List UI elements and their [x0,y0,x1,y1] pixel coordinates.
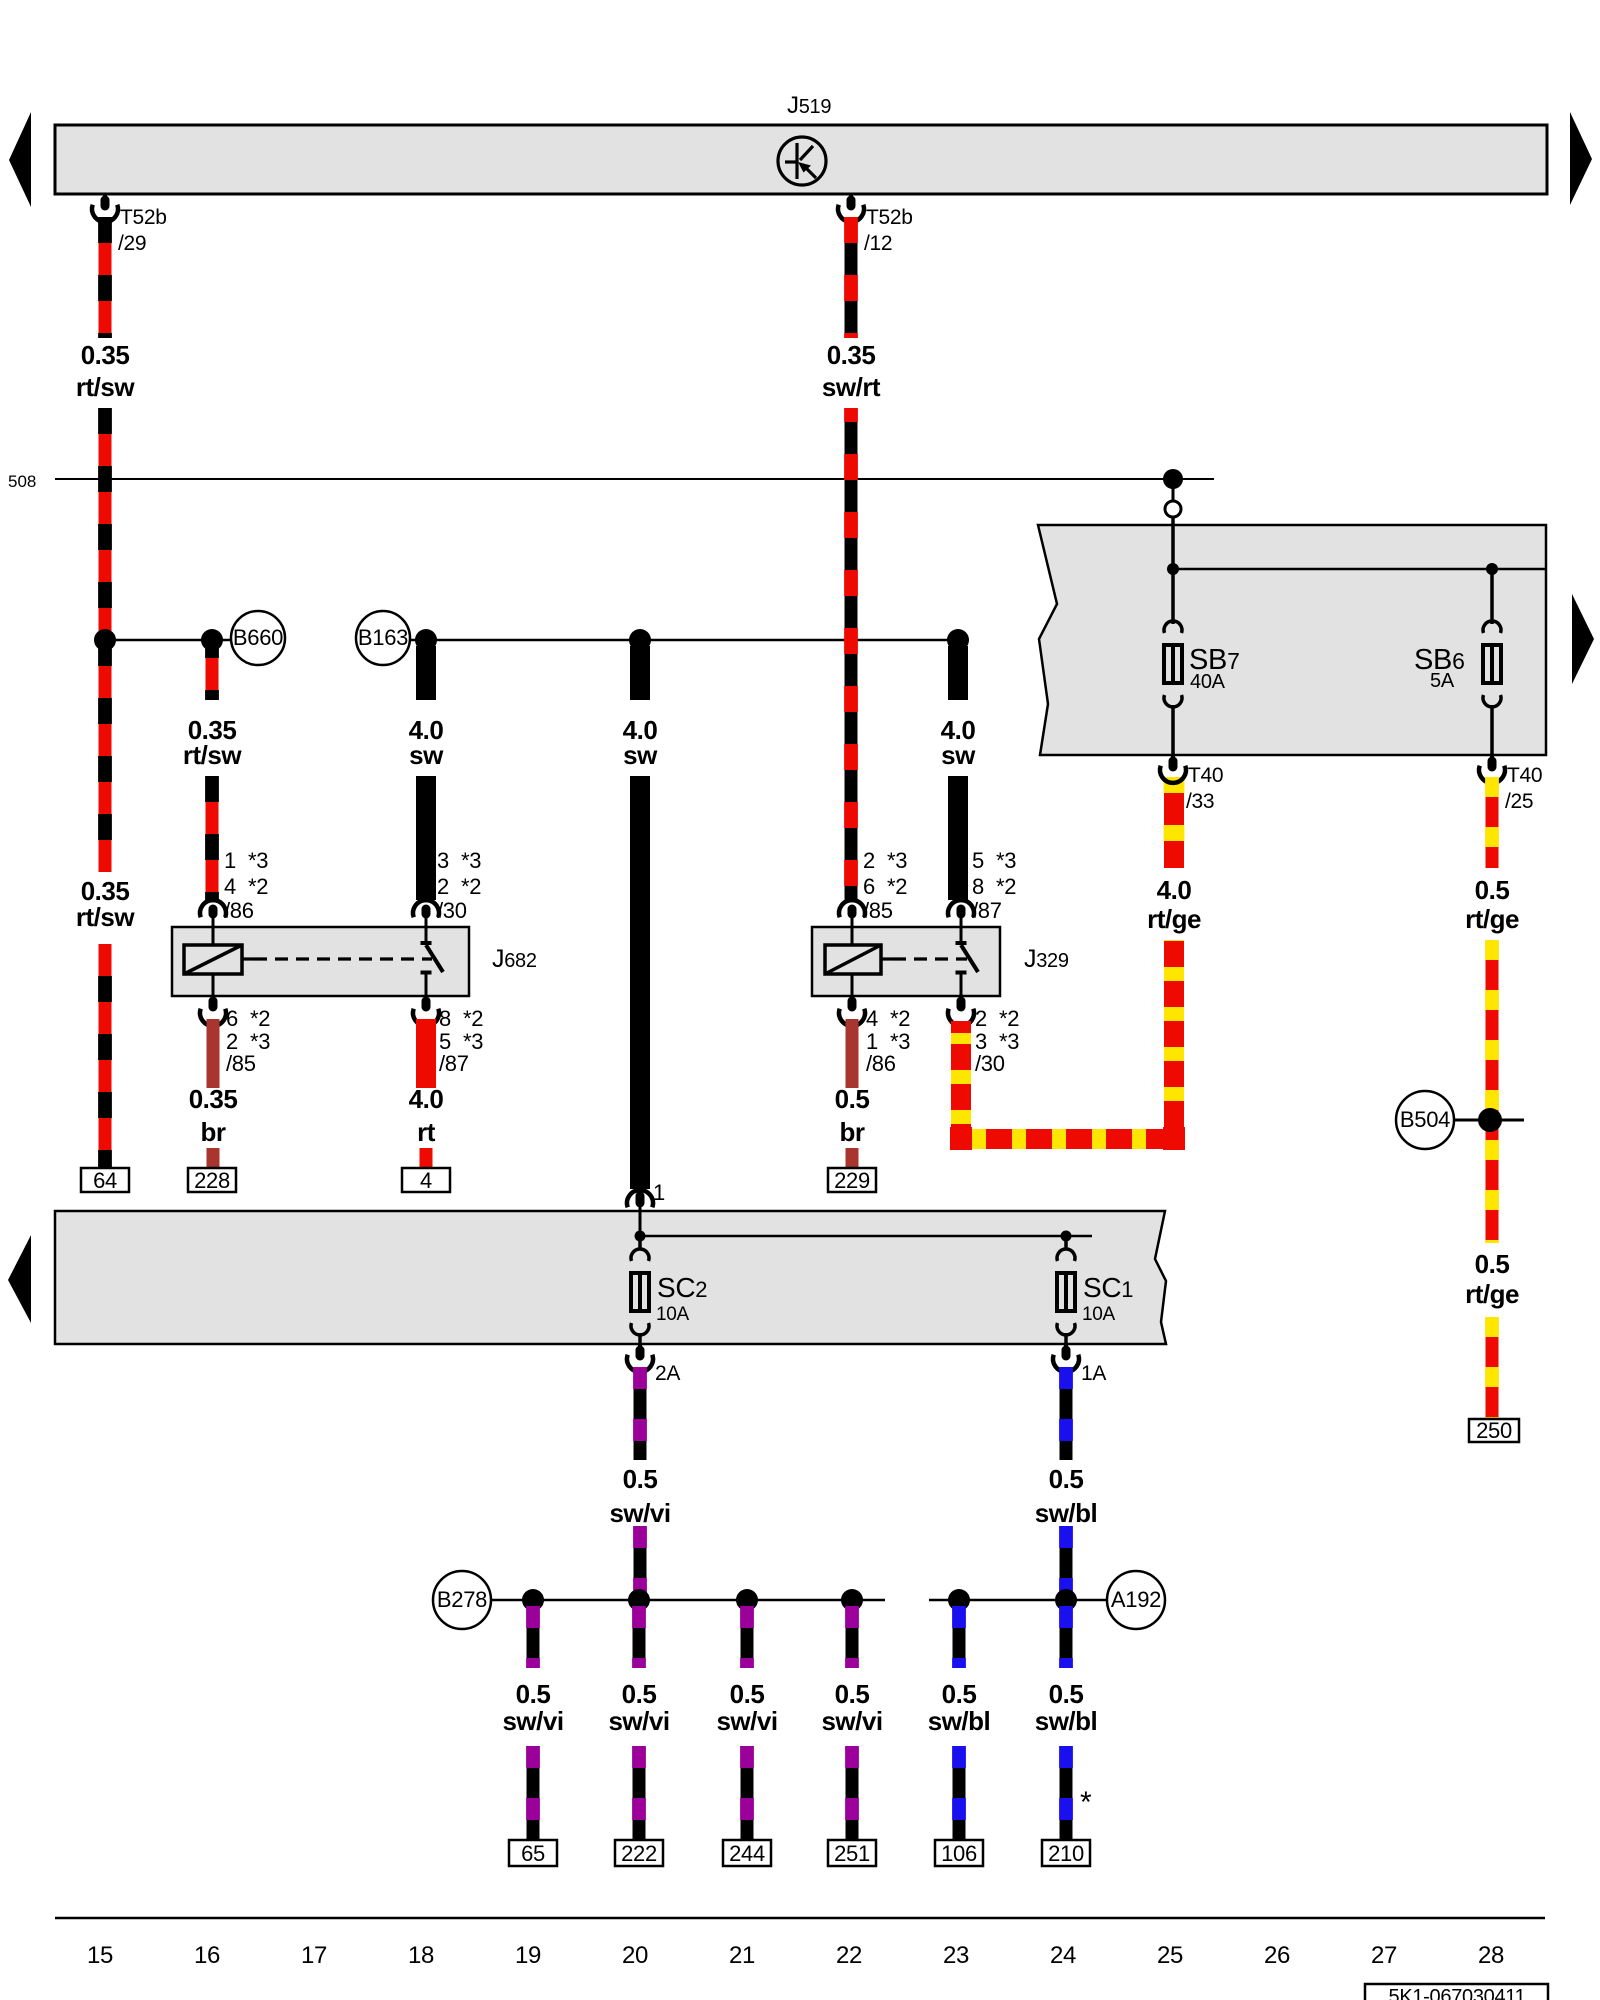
junction designation B504 [1396,1091,1454,1149]
svg-text:*2: *2 [890,1006,910,1031]
svg-text:sw: sw [623,740,658,770]
svg-text:/85: /85 [863,898,893,923]
wire 4.0 rt from J682 /87 to node 4 [416,1019,436,1088]
node line net A192 [929,1599,1107,1602]
svg-text:508: 508 [8,472,36,491]
connection box 244 [723,1840,771,1866]
svg-text:*3: *3 [996,848,1016,873]
svg-text:4.0: 4.0 [1157,875,1192,905]
connector J682 pin /85 bottom [212,996,215,1000]
svg-text:SC1: SC1 [1083,1272,1133,1303]
svg-text:J519: J519 [787,92,831,119]
junction dots on bus [94,629,116,651]
inner bus line in SB box [1173,568,1546,571]
svg-text:27: 27 [1371,1942,1397,1969]
connector J329 pin /86 bottom [848,1001,857,1007]
svg-text:*3: *3 [461,848,481,873]
svg-text:*2: *2 [463,1006,483,1031]
junction designation B163 [356,611,410,665]
drawing number box 5K1-067030411 [1365,1984,1548,2000]
wire 0.5 sw/vi to 251 [846,1606,859,1668]
symbol terminal-30 arrow in circle [778,137,826,185]
fuse SB7 40A [1172,629,1174,631]
svg-text:J682: J682 [492,945,537,973]
svg-text:4: 4 [224,874,236,899]
node line left (net B660) [105,639,231,642]
svg-text:J329: J329 [1024,945,1069,973]
svg-text:0.5: 0.5 [623,1464,658,1494]
ground designation box 250 [1469,1419,1519,1442]
svg-text:228: 228 [194,1168,230,1193]
connector J682 pin /87 bottom [422,1001,431,1007]
svg-text:10A: 10A [656,1304,690,1325]
svg-text:0.35: 0.35 [827,340,876,370]
relay J329 coil [825,945,881,974]
svg-text:229: 229 [834,1168,870,1193]
wire 4.0 sw to fuse SC2 pin 1 [630,646,650,700]
svg-text:65: 65 [521,1841,545,1866]
svg-text:222: 222 [621,1841,657,1866]
arrow continuation right (top bar) [1570,112,1592,205]
wire 0.5 sw/vi to 244 [741,1606,754,1668]
connector J682 pin /86 top [200,900,226,917]
svg-text:rt/ge: rt/ge [1465,904,1519,934]
wire 0.5 sw/bl to 106 [953,1606,966,1668]
svg-text:21: 21 [729,1942,755,1969]
svg-text:4: 4 [420,1168,432,1193]
junction designation A192 [1107,1571,1165,1629]
svg-text:19: 19 [515,1942,541,1969]
wire 0.35 rt/sw (left, to ground 64) [99,217,112,338]
svg-text:16: 16 [194,1942,220,1969]
relay J682 coil [184,945,242,974]
svg-text:20: 20 [622,1942,648,1969]
svg-text:rt: rt [417,1117,436,1147]
svg-text:8: 8 [439,1006,451,1031]
fuse SB6 5A [1490,569,1494,624]
svg-text:/86: /86 [866,1051,896,1076]
svg-text:2A: 2A [655,1362,680,1385]
svg-text:0.5: 0.5 [622,1679,657,1709]
svg-text:sw/bl: sw/bl [928,1706,991,1736]
connection box 65 [509,1840,557,1866]
svg-text:24: 24 [1050,1942,1076,1969]
svg-text:rt/sw: rt/sw [76,902,135,932]
svg-text:1: 1 [224,848,236,873]
junction designation B278 [433,1571,491,1629]
svg-text:/86: /86 [224,898,254,923]
svg-text:4.0: 4.0 [409,1084,444,1114]
wire 4.0 sw to J682 /30 [416,646,436,700]
wire 0.5 sw/vi to 222 [633,1606,646,1668]
svg-text:2: 2 [437,874,449,899]
fuse holder bar SC outline [55,1211,1166,1344]
svg-text:*3: *3 [248,848,268,873]
wire 0.35 sw/rt from J519 T52b/12 to J329 /85 [845,217,858,338]
svg-text:0.5: 0.5 [835,1084,870,1114]
connector T40/33 [1171,755,1175,762]
svg-text:0.5: 0.5 [1049,1464,1084,1494]
svg-text:sw/vi: sw/vi [609,1498,670,1528]
svg-text:sw/vi: sw/vi [821,1706,882,1736]
svg-text:sw/bl: sw/bl [1035,1498,1098,1528]
arrow continuation right (SB box) [1572,594,1594,684]
svg-text:B163: B163 [358,625,408,650]
plug connection (open circle) [1165,501,1181,517]
connector J682 pin /30 top [413,900,439,917]
svg-text:210: 210 [1048,1841,1084,1866]
wire 4.0 sw to J329 /87 [948,646,968,700]
svg-text:1A: 1A [1081,1362,1106,1385]
ground designation box 64 [81,1168,129,1192]
svg-text:*2: *2 [250,1006,270,1031]
wire 0.5 rt/ge from SB6 T40/25 to ground 250 [1486,777,1499,868]
svg-text:0.5: 0.5 [1475,875,1510,905]
ground designation box 228 [188,1168,236,1192]
relay J329 switch contact [960,918,963,941]
junction designation B660 [231,611,285,665]
ground designation box 229 [828,1168,876,1192]
svg-text:br: br [840,1117,865,1147]
connector SC1 pin 1A [1064,1344,1068,1351]
svg-text:*2: *2 [999,1006,1019,1031]
svg-text:sw/vi: sw/vi [502,1706,563,1736]
svg-text:/25: /25 [1505,790,1533,813]
svg-text:*2: *2 [887,874,907,899]
node line right (net B163) [410,639,958,642]
svg-text:/12: /12 [864,232,892,255]
svg-text:0.5: 0.5 [516,1679,551,1709]
svg-text:*3: *3 [887,848,907,873]
svg-text:2: 2 [863,848,875,873]
svg-text:0.5: 0.5 [730,1679,765,1709]
svg-text:*: * [1080,1786,1092,1819]
wire 0.5 sw/vi to 65 [527,1606,540,1668]
svg-text:0.35: 0.35 [81,340,130,370]
relay J329 actuation dashed link [881,957,893,960]
svg-text:251: 251 [834,1841,870,1866]
svg-text:25: 25 [1157,1942,1183,1969]
svg-text:1: 1 [653,1180,665,1205]
wire 0.35 rt/sw to J682 /86 [206,646,219,700]
svg-text:sw/vi: sw/vi [716,1706,777,1736]
svg-text:rt/sw: rt/sw [183,740,242,770]
svg-text:/30: /30 [975,1051,1005,1076]
fuse SC1 10A [1064,1236,1068,1249]
svg-text:*2: *2 [248,874,268,899]
svg-text:106: 106 [941,1841,977,1866]
svg-text:SC2: SC2 [657,1272,707,1303]
svg-text:3: 3 [437,848,449,873]
svg-text:0.5: 0.5 [942,1679,977,1709]
svg-text:5A: 5A [1430,670,1455,692]
wire 0.35 br from J682 /85 to ground 228 [207,1019,220,1088]
svg-text:26: 26 [1264,1942,1290,1969]
arrow continuation left (SC bar) [8,1235,31,1323]
connection box 222 [615,1840,663,1866]
svg-text:18: 18 [408,1942,434,1969]
svg-text:*2: *2 [996,874,1016,899]
connector T40/25 [1490,755,1494,762]
svg-text:28: 28 [1478,1942,1504,1969]
wire 0.5 sw/bl from SC1 1A [1060,1367,1073,1460]
relay J682 actuation dashed link [242,957,254,960]
svg-text:rt/ge: rt/ge [1147,904,1201,934]
connection box 210 [1042,1840,1090,1866]
connector J329 pin /30 bottom [957,1001,966,1007]
relay J682 switch contact [425,918,428,941]
node line net B278 [491,1599,885,1602]
svg-text:/85: /85 [226,1051,256,1076]
svg-text:244: 244 [729,1841,765,1866]
node on line 508 [1163,469,1183,489]
wire 0.5 br from J329 /86 to ground 229 [846,1019,859,1088]
connector J329 pin /87 top [948,900,974,917]
connector J329 pin /85 top [839,900,865,917]
svg-text:B278: B278 [437,1587,487,1612]
connector T52b/12 [849,194,853,201]
svg-text:0.5: 0.5 [1475,1249,1510,1279]
ground designation box 4 [402,1168,450,1192]
svg-text:64: 64 [93,1168,117,1193]
svg-text:/87: /87 [972,898,1002,923]
svg-text:rt/ge: rt/ge [1465,1279,1519,1309]
svg-text:T52b: T52b [120,206,167,229]
svg-text:8: 8 [972,874,984,899]
svg-text:0.35: 0.35 [189,1084,238,1114]
svg-text:6: 6 [226,1006,238,1031]
fuse SC2 10A [638,1236,642,1249]
svg-text:5: 5 [972,848,984,873]
fuse box SB (E-box) outline [1038,525,1546,755]
svg-text:A192: A192 [1111,1587,1161,1612]
svg-text:22: 22 [836,1942,862,1969]
control unit bus bar J519 [55,125,1547,194]
svg-text:10A: 10A [1082,1304,1116,1325]
connection box 106 [935,1840,983,1866]
svg-text:0.5: 0.5 [1049,1679,1084,1709]
wire 0.5 sw/bl to 210 [1060,1606,1073,1668]
connector SC2 pin 2A [638,1344,642,1351]
svg-text:sw/rt: sw/rt [822,372,881,402]
svg-text:23: 23 [943,1942,969,1969]
connector T52b/29 [103,194,107,201]
svg-text:rt/sw: rt/sw [76,372,135,402]
svg-text:0.5: 0.5 [835,1679,870,1709]
svg-text:T40: T40 [1188,764,1223,787]
svg-text:sw/vi: sw/vi [608,1706,669,1736]
svg-text:br: br [201,1117,226,1147]
svg-text:/30: /30 [437,898,467,923]
svg-text:6: 6 [863,874,875,899]
svg-text:B660: B660 [233,625,283,650]
relay J682 box [172,927,469,996]
svg-text:B504: B504 [1400,1107,1450,1132]
svg-text:T52b: T52b [866,206,913,229]
bottom rule [55,1917,1545,1920]
connector SC pin 1 [627,1190,653,1207]
svg-text:/87: /87 [439,1051,469,1076]
svg-text:T40: T40 [1507,764,1542,787]
relay J329 box [812,927,1000,996]
arrow continuation left (top bar) [9,112,31,207]
connection box 251 [828,1840,876,1866]
svg-text:5K1-067030411: 5K1-067030411 [1389,1986,1526,2000]
wire 0.5 sw/vi from SC2 2A [634,1367,647,1460]
svg-text:4: 4 [866,1006,878,1031]
svg-text:sw/bl: sw/bl [1035,1706,1098,1736]
inner bus line in SC bar [640,1235,1092,1238]
svg-text:17: 17 [301,1942,327,1969]
svg-text:/29: /29 [118,232,146,255]
svg-text:2: 2 [975,1006,987,1031]
svg-text:15: 15 [87,1942,113,1969]
wire 4.0 rt/ge from J329 /30 to SB7 T40/33 [961,940,1174,1139]
svg-text:40A: 40A [1190,671,1226,693]
svg-text:250: 250 [1476,1418,1512,1443]
svg-text:*2: *2 [461,874,481,899]
svg-text:sw: sw [409,740,444,770]
svg-text:/33: /33 [1186,790,1214,813]
svg-text:sw: sw [941,740,976,770]
